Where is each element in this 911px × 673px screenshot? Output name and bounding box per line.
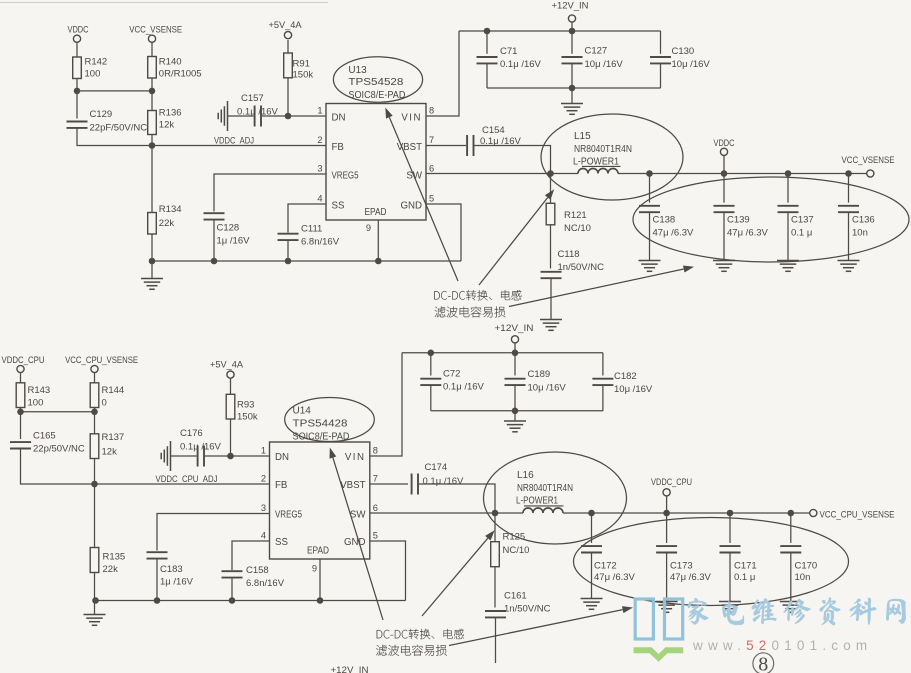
svg-text:22k: 22k — [103, 564, 119, 575]
resistor R137 — [90, 434, 99, 459]
terminal VDDC — [73, 35, 80, 42]
svg-text:R91: R91 — [293, 59, 310, 70]
ground under C136 — [838, 261, 860, 272]
wire rail to C171 — [729, 513, 731, 543]
svg-text:6: 6 — [429, 164, 434, 174]
wire junction to R93 — [230, 419, 232, 456]
watermark char 料 — [850, 598, 877, 625]
svg-text:GND: GND — [400, 200, 422, 211]
svg-text:VDDC_ADJ: VDDC_ADJ — [214, 136, 254, 146]
wire C171 to ground — [729, 553, 731, 602]
junction rail B EPAD — [317, 597, 324, 604]
wire VIN pin8 riser — [426, 31, 459, 116]
svg-text:C129: C129 — [90, 109, 113, 120]
wire C139 to ground — [723, 212, 725, 260]
svg-text:6.8n/16V: 6.8n/16V — [246, 578, 285, 589]
wire C189 to bottom rail B — [514, 385, 516, 411]
junction rail B C158 — [229, 597, 236, 604]
capacitor C161 — [485, 611, 506, 617]
svg-text:C136: C136 — [852, 215, 875, 226]
junction rail A C111 — [285, 258, 292, 265]
junction rail A C139 — [721, 170, 728, 177]
svg-text:VREG5: VREG5 — [275, 509, 302, 520]
arrow B to output caps ellipse — [449, 610, 623, 646]
junction bottom rail B — [512, 408, 519, 415]
wire R91 to +5V_4A — [287, 40, 289, 53]
wire C136 to ground — [848, 212, 850, 260]
wire C128 to rail A — [213, 220, 215, 261]
input bottom rail B — [431, 410, 603, 412]
svg-text:VDDC_CPU: VDDC_CPU — [651, 477, 692, 487]
svg-text:2: 2 — [317, 135, 322, 145]
svg-text:TPS54428: TPS54428 — [293, 419, 348, 430]
wire C182 to bottom rail B — [602, 385, 604, 411]
junction SW B — [492, 510, 499, 517]
arrow B to U14 ellipse — [333, 458, 383, 620]
capacitor C176 — [198, 446, 204, 467]
wire C137 to ground — [787, 212, 789, 260]
svg-text:22pF/50V/NC: 22pF/50V/NC — [90, 122, 148, 133]
terminal VDDC_CPU — [17, 365, 24, 372]
terminal VCC_VSENSE out — [867, 170, 874, 177]
svg-text:VCC_CPU_VSENSE: VCC_CPU_VSENSE — [820, 510, 895, 520]
svg-text:R93: R93 — [237, 400, 254, 411]
svg-text:47μ /6.3V: 47μ /6.3V — [670, 572, 712, 583]
ellipse callout U14 — [285, 398, 375, 442]
input top rail B — [402, 352, 603, 354]
svg-text:VCC_VSENSE: VCC_VSENSE — [842, 155, 895, 165]
svg-text:C173: C173 — [670, 560, 693, 571]
wire rail to C137 — [787, 174, 789, 203]
resistor R91 — [284, 53, 293, 78]
wire SW node to R121 — [550, 174, 552, 204]
arrow B to SW node B — [422, 538, 488, 616]
ground rail B — [95, 600, 406, 602]
wire R137 to ADJ node B — [94, 459, 96, 485]
terminal +5V_4A top — [284, 31, 291, 38]
wire EPAD pin9 to rail B — [319, 559, 321, 601]
wire node row A1 — [77, 90, 152, 92]
svg-text:NC/10: NC/10 — [564, 223, 591, 234]
wire R143 to node B1 — [20, 408, 22, 412]
watermark char 维 — [752, 599, 777, 625]
svg-text:C128: C128 — [217, 223, 240, 234]
resistor R125 — [491, 542, 500, 567]
junction rail B R135 — [92, 597, 99, 604]
svg-text:10n: 10n — [852, 227, 868, 238]
svg-text:C130: C130 — [672, 46, 695, 57]
ground stem B2 — [514, 411, 516, 421]
wire C183 to rail B — [156, 559, 158, 601]
wire C111 to rail A — [287, 240, 289, 261]
ground (sideways) at C157 — [218, 101, 227, 131]
wire R134 to ground rail A — [151, 234, 153, 261]
capacitor C138 — [639, 206, 660, 212]
svg-text:150k: 150k — [293, 70, 314, 81]
svg-text:1n/50V/NC: 1n/50V/NC — [504, 603, 551, 614]
svg-text:VBST: VBST — [340, 480, 365, 491]
input top rail A — [459, 30, 661, 32]
capacitor C173 — [656, 546, 677, 552]
ground rail A — [152, 260, 461, 262]
capacitor C183 — [147, 552, 168, 558]
resistor R136 — [148, 111, 157, 135]
ground under C172 — [581, 599, 603, 610]
svg-text:47μ /6.3V: 47μ /6.3V — [594, 572, 636, 583]
annotation text B line2 — [376, 645, 447, 656]
wire GND pin5 to rail A — [426, 204, 461, 261]
junction rail C189 — [512, 350, 519, 357]
terminal VCC_CPU_VSENSE — [91, 365, 98, 372]
underline L-POWER1 A — [582, 165, 621, 167]
svg-text:C154: C154 — [482, 125, 505, 136]
svg-text:VDDC: VDDC — [714, 138, 735, 148]
capacitor C118 — [541, 272, 562, 278]
terminal +5V_4A bottom — [227, 371, 234, 378]
svg-text:L-POWER1: L-POWER1 — [516, 496, 558, 507]
svg-text:1n/50V/NC: 1n/50V/NC — [558, 262, 605, 273]
svg-text:10n: 10n — [795, 572, 811, 583]
op-amp/regulator U14 TPS54428 box — [270, 442, 370, 559]
svg-text:+12V_IN: +12V_IN — [552, 1, 589, 11]
svg-text:0.1 μ: 0.1 μ — [791, 227, 812, 238]
junction rail A C128 — [211, 258, 218, 265]
svg-text:100: 100 — [28, 397, 44, 408]
junction B1a — [17, 409, 24, 416]
junction B1b — [91, 409, 98, 416]
svg-text:C171: C171 — [734, 560, 757, 571]
capacitor C189 — [505, 379, 526, 385]
svg-text:C71: C71 — [500, 46, 517, 57]
wire C138 to ground — [649, 212, 651, 260]
wire C130 to bottom rail — [660, 63, 662, 88]
svg-text:6.8n/16V: 6.8n/16V — [301, 236, 340, 247]
resistor R142 — [73, 57, 82, 79]
wire GND pin5 to rail B — [370, 541, 406, 601]
svg-text:L15: L15 — [574, 131, 591, 142]
svg-text:4: 4 — [317, 194, 322, 204]
svg-text:10μ /16V: 10μ /16V — [614, 384, 653, 395]
svg-text:SOIC8/E-PAD: SOIC8/E-PAD — [293, 432, 350, 443]
junction ADJ B — [91, 481, 98, 488]
svg-text:+5V_4A: +5V_4A — [210, 360, 244, 370]
arrow A to U13 ellipse — [389, 117, 458, 281]
junction rail C127 — [569, 28, 576, 35]
wire to C182 — [602, 353, 604, 376]
wire R135 to ground rail B — [94, 573, 96, 601]
svg-text:8: 8 — [373, 446, 378, 456]
junction rail A R134 — [149, 258, 156, 265]
svg-text:U14: U14 — [293, 406, 312, 417]
svg-text:1μ /16V: 1μ /16V — [160, 577, 194, 588]
svg-text:C174: C174 — [425, 462, 448, 473]
wire rail to C173 — [666, 513, 668, 543]
junction rail A C138 — [646, 170, 653, 177]
wire C176 to DN pin1 B — [205, 455, 270, 457]
svg-text:C139: C139 — [727, 215, 750, 226]
junction DN/R91 — [285, 113, 292, 120]
svg-text:R125: R125 — [503, 532, 526, 543]
svg-text:+5V_4A: +5V_4A — [269, 20, 303, 30]
svg-text:47μ /6.3V: 47μ /6.3V — [727, 227, 769, 238]
svg-text:C170: C170 — [795, 560, 818, 571]
watermark char 资 — [820, 597, 841, 625]
wire ADJ node B to R135 — [94, 484, 96, 548]
terminal VDDC_CPU out — [663, 489, 670, 496]
inductor L15 coil — [578, 169, 618, 174]
wire B1a to C165 — [20, 412, 22, 439]
resistor R144 — [90, 383, 99, 408]
resistor R93 — [226, 394, 235, 419]
svg-text:VCC_CPU_VSENSE: VCC_CPU_VSENSE — [65, 355, 138, 365]
svg-text:R121: R121 — [564, 210, 587, 221]
watermark char 网 — [886, 599, 905, 624]
terminal +12V_IN B — [511, 336, 518, 343]
junction rail A C136 — [845, 170, 852, 177]
capacitor C158 — [222, 571, 243, 577]
svg-text:0.1μ /16V: 0.1μ /16V — [500, 59, 542, 70]
wire VREG5 to C183 — [157, 514, 270, 551]
svg-text:2: 2 — [261, 474, 266, 484]
wire node row B1 — [21, 411, 95, 413]
wire terminal to rail A — [571, 22, 573, 31]
svg-text:+12V_IN: +12V_IN — [331, 665, 369, 673]
terminal +12V_IN A — [568, 15, 575, 22]
wire A1a to C129 — [76, 91, 78, 119]
capacitor C71 — [477, 57, 498, 63]
svg-text:VDDC: VDDC — [68, 25, 89, 35]
svg-text:R144: R144 — [102, 385, 125, 396]
svg-text:7: 7 — [373, 474, 378, 484]
capacitor C136 — [838, 206, 859, 212]
junction bottom rail A — [569, 85, 576, 92]
wire rail to C138 — [649, 174, 651, 203]
svg-text:C118: C118 — [558, 249, 580, 260]
wire VBST to C174 — [370, 483, 408, 485]
wire SW pin6 to coil — [426, 173, 578, 175]
svg-text:SS: SS — [275, 537, 288, 548]
ground under C137 — [777, 261, 799, 272]
watermark logo blue square right — [665, 599, 683, 639]
underline L-POWER1 B — [524, 505, 564, 507]
svg-text:12k: 12k — [159, 120, 175, 131]
junction rail B C171 — [727, 510, 734, 517]
resistor R140 — [148, 57, 157, 79]
wire junction to R91 — [287, 78, 289, 117]
wire C161 down — [495, 617, 497, 663]
ground A1 — [141, 279, 163, 290]
wire VREG5 to C128 — [214, 174, 326, 212]
wire ADJ node to R134 — [151, 146, 153, 213]
wire C165 to FB (VDDC_CPU_ADJ net) — [21, 449, 270, 485]
svg-text:8: 8 — [429, 106, 434, 116]
ground B1 — [84, 615, 106, 626]
svg-text:U13: U13 — [348, 65, 367, 76]
capacitor C154 — [467, 135, 473, 156]
svg-text:VIN: VIN — [401, 112, 422, 123]
svg-text:C127: C127 — [585, 46, 608, 57]
svg-text:DN: DN — [332, 112, 346, 123]
svg-text:C165: C165 — [33, 431, 56, 442]
ground under C138 — [639, 261, 661, 272]
svg-text:3: 3 — [261, 503, 266, 513]
terminal VCC_CPU_VSENSE out — [810, 509, 817, 516]
junction rail C71 — [484, 28, 491, 35]
svg-text:0.1μ /16V: 0.1μ /16V — [443, 381, 485, 392]
capacitor C165 — [10, 442, 31, 448]
inductor L16 coil — [523, 508, 563, 513]
wire EPAD pin9 to rail A — [377, 220, 379, 261]
capacitor C157 — [255, 106, 261, 127]
svg-text:9: 9 — [366, 223, 371, 233]
capacitor C174 — [412, 474, 418, 495]
wire C170 to ground — [790, 553, 792, 602]
wire ground to C157 — [228, 115, 254, 117]
wire VDDC_CPU terminal to rail — [666, 496, 668, 513]
wire to C189 — [514, 353, 516, 376]
wire VDDC to R142 — [76, 42, 78, 57]
wire R142 to node A1 — [76, 79, 78, 91]
svg-text:R136: R136 — [159, 108, 182, 119]
watermark char 修 — [784, 599, 811, 624]
wire SW node B to R125 — [494, 513, 496, 542]
svg-text:VIN: VIN — [345, 452, 366, 463]
wire R93 to +5V_4A B — [230, 378, 232, 394]
wire C72 to bottom rail B — [430, 385, 432, 411]
ground stem B1 — [94, 601, 96, 615]
capacitor C111 — [278, 234, 299, 240]
svg-text:22k: 22k — [159, 218, 175, 229]
wire C174 to SW node B — [419, 484, 495, 513]
svg-text:C138: C138 — [653, 215, 676, 226]
svg-text:C183: C183 — [160, 564, 183, 575]
svg-text:FB: FB — [275, 480, 287, 491]
svg-text:VDDC_CPU_ADJ: VDDC_CPU_ADJ — [156, 474, 218, 484]
svg-text:5: 5 — [429, 194, 434, 204]
junction ADJ A — [149, 142, 156, 149]
svg-text:FB: FB — [332, 142, 344, 153]
svg-text:6: 6 — [373, 503, 378, 513]
wire SS to C111 — [288, 204, 326, 233]
svg-text:NR8040T1R4N: NR8040T1R4N — [574, 144, 632, 155]
wire rail to C139 — [723, 174, 725, 203]
wire to C72 — [430, 353, 432, 376]
wire SS to C158 — [232, 541, 270, 570]
svg-text:C111: C111 — [301, 224, 322, 235]
watermark logo blue square left — [635, 599, 653, 639]
svg-text:VREG5: VREG5 — [332, 170, 359, 181]
wire rail to C172 — [591, 513, 593, 543]
svg-text:GND: GND — [344, 537, 366, 548]
resistor R134 — [148, 213, 157, 235]
svg-text:DN: DN — [275, 452, 289, 463]
junction DN/R93 — [227, 453, 234, 460]
svg-text:R137: R137 — [102, 432, 125, 443]
capacitor C129 — [67, 122, 88, 128]
junction A1b — [149, 88, 156, 95]
svg-text:EPAD: EPAD — [365, 207, 387, 218]
ground stem A1 — [151, 261, 153, 278]
ground stem A2 — [571, 88, 573, 103]
svg-text:VCC_VSENSE: VCC_VSENSE — [129, 25, 182, 35]
wire SW pin6 to coil B — [370, 512, 523, 514]
svg-text:C176: C176 — [180, 428, 203, 439]
wire C118 to ground — [550, 278, 552, 319]
svg-text:12k: 12k — [102, 447, 118, 458]
wire rail to C136 — [848, 174, 850, 203]
op-amp/regulator U13 TPS54528 box — [326, 104, 426, 221]
capacitor C130 — [650, 57, 671, 63]
wire VCC_VSENSE to R140 — [151, 42, 153, 56]
svg-text:1: 1 — [317, 106, 322, 116]
ellipse callout U13 — [333, 57, 422, 102]
svg-text:TPS54528: TPS54528 — [348, 77, 403, 88]
wire C173 to ground — [666, 553, 668, 602]
svg-text:4: 4 — [261, 531, 266, 541]
terminal VDDC out — [720, 148, 727, 155]
svg-text:www.520101.com: www.520101.com — [692, 638, 872, 653]
wire C158 to rail B — [231, 578, 233, 601]
capacitor C182 — [592, 379, 613, 385]
watermark char 电 — [722, 601, 744, 625]
svg-text:R134: R134 — [159, 204, 182, 215]
wire to C71 — [486, 31, 488, 54]
output rail A — [618, 173, 867, 175]
svg-text:0R/R1005: 0R/R1005 — [159, 69, 202, 80]
wire VCC_CPU_VSENSE to R144 — [94, 372, 96, 382]
resistor R135 — [90, 548, 99, 573]
watermark char 家 — [688, 598, 709, 624]
svg-text:3: 3 — [317, 164, 322, 174]
svg-text:R140: R140 — [159, 57, 182, 68]
capacitor C137 — [778, 206, 799, 212]
ellipse callout L16 — [484, 452, 627, 544]
svg-text:7: 7 — [429, 135, 434, 145]
svg-text:C157: C157 — [241, 93, 264, 104]
svg-text:C189: C189 — [528, 369, 551, 380]
wire to C127 — [571, 31, 573, 54]
junction rail C72 — [428, 350, 435, 357]
svg-text:C72: C72 — [443, 368, 460, 379]
svg-text:10μ /16V: 10μ /16V — [585, 59, 624, 70]
svg-text:9: 9 — [312, 564, 317, 574]
svg-text:R143: R143 — [28, 385, 51, 396]
svg-text:NC/10: NC/10 — [503, 545, 530, 556]
junction SW A — [547, 170, 554, 177]
ellipse callout L15 — [541, 114, 683, 200]
svg-text:10μ /16V: 10μ /16V — [672, 59, 711, 70]
wire terminal to rail B — [514, 343, 516, 353]
ellipse callout output caps A — [633, 177, 909, 262]
wire C129 to FB (VDDC_ADJ net) — [77, 128, 326, 146]
capacitor C72 — [420, 379, 441, 385]
wire C157 to DN pin1 — [262, 115, 326, 117]
junction rail B C173 — [663, 510, 670, 517]
svg-text:0.1μ /16V: 0.1μ /16V — [180, 442, 222, 453]
wire R140 to R136 — [151, 78, 153, 111]
resistor R121 — [546, 203, 555, 225]
svg-text:47μ /6.3V: 47μ /6.3V — [653, 227, 695, 238]
wire VDDC_CPU to R143 — [20, 372, 22, 382]
wire C127 to bottom rail — [571, 63, 573, 88]
svg-text:8: 8 — [758, 654, 768, 673]
svg-text:L16: L16 — [517, 470, 534, 481]
output rail B — [563, 512, 810, 514]
svg-text:10μ /16V: 10μ /16V — [528, 382, 567, 393]
capacitor C170 — [780, 546, 801, 552]
svg-text:0.1 μ: 0.1 μ — [734, 572, 755, 583]
svg-text:0: 0 — [102, 397, 107, 408]
